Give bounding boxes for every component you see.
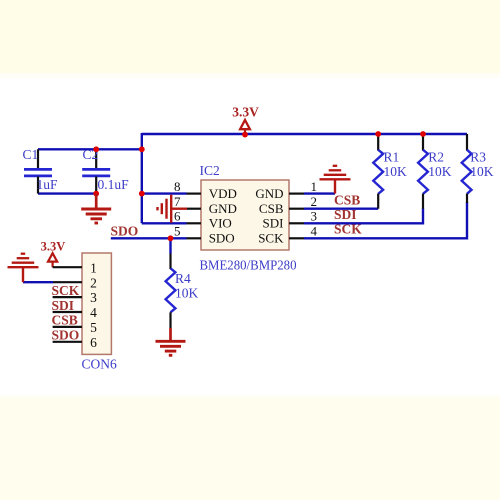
svg-text:SCK: SCK bbox=[52, 283, 80, 298]
bottom cream band bbox=[0, 398, 500, 500]
svg-text:CSB: CSB bbox=[334, 192, 360, 207]
resistor R4 bbox=[166, 254, 199, 329]
svg-text:VIO: VIO bbox=[209, 216, 232, 231]
junction R2 on rail bbox=[420, 131, 426, 137]
wire VDD pin 8 bbox=[142, 192, 187, 194]
CON6 pin 1 bbox=[53, 266, 82, 268]
junction SDO / R4 bbox=[168, 235, 174, 241]
svg-text:CON6: CON6 bbox=[82, 357, 118, 372]
svg-text:10K: 10K bbox=[384, 164, 408, 179]
resistor R1 bbox=[373, 134, 407, 209]
svg-text:VDD: VDD bbox=[209, 186, 237, 201]
wire R4 top bbox=[169, 238, 171, 253]
svg-text:CSB: CSB bbox=[259, 201, 284, 216]
ground upward at pin 1 bbox=[320, 166, 351, 194]
IC IC2 box bbox=[201, 180, 289, 250]
wire GND pin 1 to ground bbox=[304, 192, 335, 194]
svg-text:2: 2 bbox=[90, 275, 97, 290]
pin 7 GND bbox=[187, 208, 201, 210]
connector CON6 box bbox=[82, 253, 111, 354]
svg-text:R3: R3 bbox=[470, 150, 486, 165]
capacitor C1 bbox=[23, 147, 59, 194]
svg-text:R2: R2 bbox=[428, 150, 444, 165]
pin 1 GND right bbox=[289, 193, 304, 195]
pin 2 CSB right bbox=[289, 208, 304, 210]
svg-text:R1: R1 bbox=[384, 150, 400, 165]
svg-text:0.1uF: 0.1uF bbox=[98, 177, 130, 192]
svg-text:C1: C1 bbox=[23, 147, 39, 162]
svg-text:3: 3 bbox=[311, 209, 318, 224]
resistor R3 bbox=[462, 134, 494, 203]
ground upward at CON6 pin 2 bbox=[8, 254, 39, 283]
pin 4 SCK right bbox=[289, 237, 304, 239]
svg-text:3.3V: 3.3V bbox=[232, 104, 259, 119]
svg-text:SCK: SCK bbox=[258, 231, 284, 246]
svg-text:1: 1 bbox=[311, 179, 318, 194]
svg-text:GND: GND bbox=[255, 186, 283, 201]
wire capacitor bottom line bbox=[38, 192, 96, 194]
ground sideways at pin 7 bbox=[158, 195, 188, 223]
svg-text:1: 1 bbox=[90, 260, 97, 275]
pin 3 SDI right bbox=[289, 222, 304, 224]
svg-text:3: 3 bbox=[90, 290, 97, 305]
svg-text:SDO: SDO bbox=[209, 231, 235, 246]
svg-text:2: 2 bbox=[311, 194, 318, 209]
svg-text:4: 4 bbox=[90, 305, 97, 320]
svg-text:5: 5 bbox=[174, 224, 181, 239]
junction C2 top bbox=[93, 146, 99, 152]
svg-text:10K: 10K bbox=[470, 164, 494, 179]
svg-text:SDI: SDI bbox=[52, 298, 75, 313]
CON6 pin 5 bbox=[53, 326, 82, 328]
power 3.3V arrow top bbox=[232, 104, 259, 134]
svg-text:3.3V: 3.3V bbox=[41, 239, 66, 253]
CON6 pin 6 bbox=[53, 341, 82, 343]
junction 3.3V on rail bbox=[242, 132, 248, 138]
CON6 pin 2 bbox=[53, 281, 82, 283]
svg-text:1uF: 1uF bbox=[37, 177, 59, 192]
wire 3.3V top rail bbox=[142, 133, 467, 135]
svg-text:GND: GND bbox=[209, 201, 237, 216]
pin 8 VDD bbox=[187, 193, 202, 195]
junction R1 on rail bbox=[375, 131, 381, 137]
CON6 pin 3 bbox=[53, 296, 82, 298]
wire CSB pin 2 to R1 bbox=[304, 207, 378, 209]
svg-text:SDO: SDO bbox=[52, 328, 80, 343]
power 3.3V arrow at CON6 bbox=[41, 239, 66, 267]
wire SCK pin 4 to R3 bbox=[304, 202, 467, 238]
svg-text:SDI: SDI bbox=[263, 216, 284, 231]
wire VIO pin 6 bbox=[142, 222, 187, 224]
svg-text:10K: 10K bbox=[175, 286, 199, 301]
pin 5 SDO bbox=[187, 237, 202, 239]
wire SDI pin 3 to R2 bbox=[304, 208, 423, 223]
svg-text:BME280/BMP280: BME280/BMP280 bbox=[200, 258, 297, 273]
resistor R2 bbox=[418, 134, 452, 209]
CON6 pin 4 bbox=[53, 311, 82, 313]
svg-text:IC2: IC2 bbox=[200, 163, 220, 178]
svg-text:6: 6 bbox=[90, 335, 97, 350]
wire capacitor top line bbox=[38, 148, 142, 150]
svg-text:8: 8 bbox=[174, 179, 181, 194]
wire SDO pin 5 bbox=[111, 237, 187, 239]
svg-text:5: 5 bbox=[90, 320, 97, 335]
wire left vertical 3.3V drop bbox=[141, 133, 143, 223]
junction C2 bottom bbox=[93, 191, 99, 197]
capacitor C2 bbox=[82, 147, 129, 194]
svg-text:7: 7 bbox=[174, 194, 181, 209]
wire CON6 pin 2 to ground bbox=[23, 281, 53, 283]
svg-text:R4: R4 bbox=[175, 271, 191, 286]
svg-text:SDO: SDO bbox=[111, 224, 139, 239]
svg-text:4: 4 bbox=[311, 224, 318, 239]
junction cap top at vertical bbox=[139, 146, 145, 152]
svg-text:6: 6 bbox=[174, 209, 181, 224]
svg-text:SDI: SDI bbox=[334, 207, 357, 222]
svg-text:CSB: CSB bbox=[52, 313, 78, 328]
svg-text:SCK: SCK bbox=[334, 222, 362, 237]
ground below C2 bbox=[81, 194, 111, 223]
ground below R4 bbox=[156, 328, 186, 355]
pin 6 VIO bbox=[187, 222, 202, 224]
svg-text:10K: 10K bbox=[428, 164, 452, 179]
top cream band bbox=[0, 0, 500, 73]
junction VDD at vertical bbox=[139, 191, 145, 197]
